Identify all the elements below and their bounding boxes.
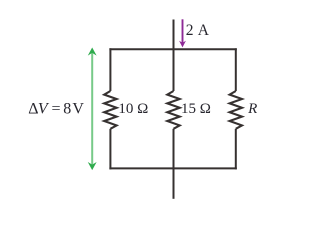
- wire top rail: [109, 48, 236, 50]
- wire right branch upper segment: [235, 48, 237, 91]
- svg-text:=: =: [52, 100, 61, 117]
- wire left branch lower segment: [109, 129, 111, 170]
- voltage arrow shaft (delta-V, green): [91, 53, 93, 166]
- wire bottom rail: [109, 167, 236, 169]
- wire middle branch lower segment and bottom stub: [173, 129, 175, 199]
- svg-text:V: V: [72, 100, 84, 117]
- svg-text:R: R: [247, 101, 257, 117]
- resistor R2 (15 ohm) zigzag: [167, 91, 179, 129]
- svg-text:2: 2: [186, 22, 194, 39]
- current arrow head: [179, 41, 186, 48]
- wire left branch upper segment: [109, 48, 111, 91]
- svg-text:V: V: [38, 100, 50, 117]
- voltage arrow bottom head: [89, 163, 96, 169]
- voltage arrow top head: [89, 48, 96, 54]
- svg-text:15 Ω: 15 Ω: [181, 101, 211, 117]
- current arrow shaft (2 A, magenta): [182, 19, 184, 43]
- wire right branch lower segment: [235, 129, 237, 170]
- label delta-V = 8 V: [28, 100, 84, 117]
- svg-text:8: 8: [63, 100, 71, 117]
- wire middle branch top stub (current feed): [173, 20, 175, 92]
- resistor R3 (R) zigzag: [230, 91, 242, 129]
- resistor R1 (10 ohm) zigzag: [104, 91, 116, 129]
- svg-text:A: A: [198, 22, 210, 39]
- svg-text:10 Ω: 10 Ω: [118, 101, 148, 117]
